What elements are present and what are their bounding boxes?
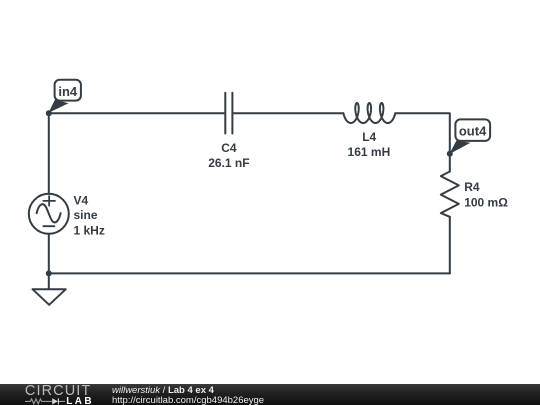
V4 minus sign <box>43 225 54 227</box>
V4 plus sign <box>43 196 55 206</box>
wire top: C4 right plate to L4 <box>233 112 342 114</box>
junction dot in4 <box>46 110 52 116</box>
wire top: in4 node to C4 left plate <box>49 112 225 114</box>
footer bar <box>0 384 540 405</box>
svg-text:R4: R4 <box>464 180 480 194</box>
svg-text:1 kHz: 1 kHz <box>74 224 105 238</box>
junction dot ground <box>46 270 52 276</box>
inductor L4 coil <box>343 103 395 123</box>
V4 sine wave <box>37 204 61 222</box>
CircuitLab logo doodle: resistor + diode wire <box>25 397 66 405</box>
svg-text:V4: V4 <box>74 193 89 207</box>
svg-text:sine: sine <box>74 208 98 222</box>
ground symbol <box>33 273 66 304</box>
wire bottom rail <box>49 272 450 274</box>
wire left upper: in4 node down to V4 top <box>48 113 50 194</box>
voltage source V4 circle <box>29 194 69 234</box>
capacitor C4 plates <box>225 93 232 134</box>
svg-text:out4: out4 <box>459 124 487 139</box>
CircuitLab logo wordmark LAB <box>66 397 94 405</box>
wire left lower: V4 bottom to bottom rail <box>48 234 50 274</box>
wire top right: L4 to corner and down to R4 <box>396 113 450 171</box>
node label out4 box <box>455 119 490 140</box>
svg-text:in4: in4 <box>58 84 78 99</box>
footer credits text <box>112 386 264 405</box>
svg-text:161 mH: 161 mH <box>348 145 391 159</box>
in4 pointer <box>48 100 68 113</box>
junction dot out4 <box>447 151 453 157</box>
svg-text:100 mΩ: 100 mΩ <box>464 196 508 210</box>
wire right lower: R4 bottom down to bottom rail <box>449 217 451 274</box>
node label in4 box <box>55 80 81 101</box>
resistor R4 zigzag <box>441 172 459 217</box>
svg-text:C4: C4 <box>221 141 237 155</box>
out4 pointer <box>449 141 470 154</box>
CircuitLab logo wordmark CIRCUIT <box>25 385 92 398</box>
svg-text:L4: L4 <box>362 130 376 144</box>
svg-text:26.1 nF: 26.1 nF <box>208 156 249 170</box>
